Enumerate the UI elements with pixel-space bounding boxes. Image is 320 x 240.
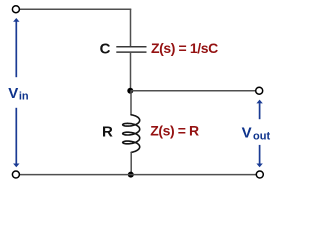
- svg-text:C: C: [100, 40, 111, 57]
- wire coil to bottom junction: [130, 152, 132, 174]
- terminal circle top-right: [256, 87, 263, 94]
- resistor R coil symbol: [123, 115, 140, 153]
- Vin dimension arrow upper: [13, 18, 19, 77]
- wire capacitor to junction: [130, 53, 132, 91]
- svg-text:R: R: [102, 123, 113, 140]
- svg-text:Vin: Vin: [8, 85, 29, 103]
- terminal circle top-left: [12, 6, 19, 13]
- capacitor C1 plate bottom: [116, 51, 146, 53]
- svg-text:Z(s) = R: Z(s) = R: [150, 123, 199, 139]
- wire middle horizontal: [131, 90, 256, 92]
- wire bottom horizontal: [19, 174, 256, 176]
- svg-text:Vout: Vout: [242, 125, 271, 143]
- node junction mid: [127, 88, 133, 94]
- node junction bottom: [128, 172, 134, 178]
- terminal circle bottom-right: [256, 171, 263, 178]
- svg-text:Z(s) = 1/sC: Z(s) = 1/sC: [151, 40, 218, 56]
- Vout dimension arrow upper: [256, 100, 262, 120]
- wire junction to coil: [130, 91, 132, 116]
- terminal circle bottom-left: [12, 171, 19, 178]
- wire middle vertical upper: [130, 9, 132, 46]
- wire top horizontal: [19, 8, 131, 10]
- capacitor C1 plate top: [116, 46, 146, 48]
- Vin dimension arrow lower: [13, 108, 19, 168]
- Vout dimension arrow lower: [256, 145, 262, 167]
